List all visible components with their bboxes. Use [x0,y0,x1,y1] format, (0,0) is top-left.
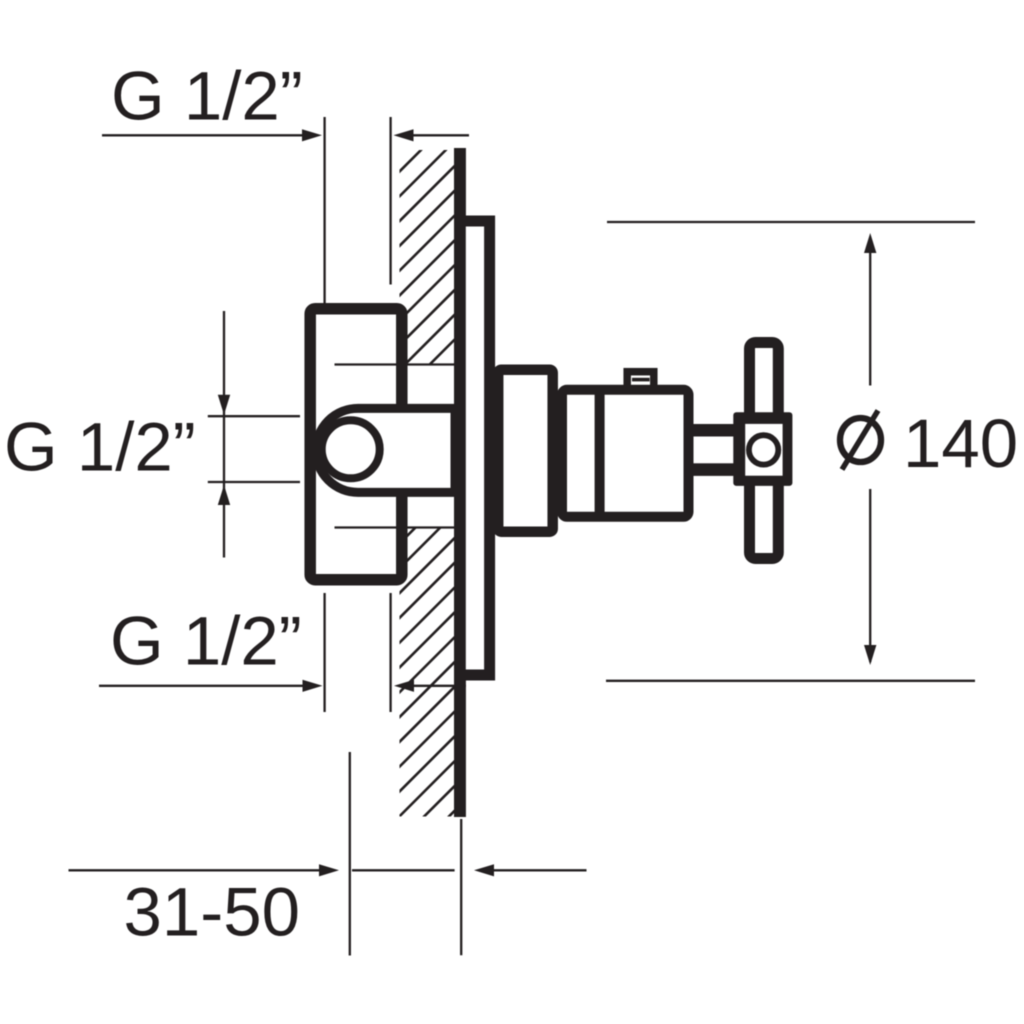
svg-text:G 1/2”: G 1/2” [111,57,303,134]
svg-text:G 1/2”: G 1/2” [4,408,196,485]
svg-text:140: 140 [903,405,1018,482]
svg-text:31-50: 31-50 [124,874,300,951]
svg-text:G 1/2”: G 1/2” [110,602,302,679]
